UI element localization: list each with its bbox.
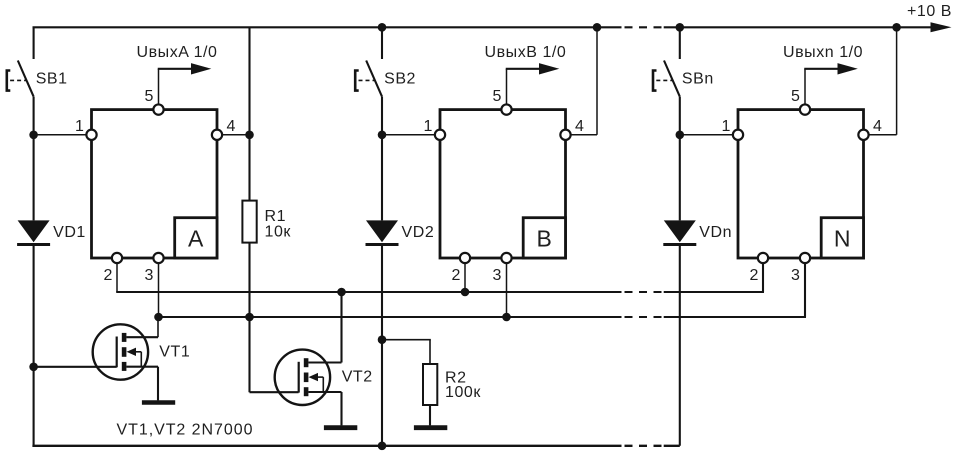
wire pin4	[571, 134, 597, 136]
svg-text:4: 4	[575, 118, 584, 135]
pin 5 of A	[153, 104, 163, 114]
node junction R1 on pin3 bus	[245, 313, 254, 322]
wire VT1 gate to VD1 column	[34, 366, 117, 368]
pin 1 of N	[733, 130, 743, 140]
wire pin4	[223, 134, 250, 136]
pin 2 of B	[460, 253, 470, 263]
svg-text:1: 1	[424, 118, 433, 135]
output arrow UвыхA 1/0	[158, 68, 192, 70]
wire bottom rail dashed continuation	[625, 445, 664, 447]
pin 2 of N	[758, 253, 768, 263]
diode VD1	[18, 220, 50, 242]
svg-text:2: 2	[750, 267, 759, 284]
pin 2 of A	[112, 253, 122, 263]
svg-text:UвыхB 1/0: UвыхB 1/0	[485, 44, 567, 61]
svg-text:R1: R1	[265, 208, 287, 225]
transistor VT2 MOSFET	[275, 350, 330, 405]
svg-text:100к: 100к	[445, 384, 481, 401]
pin 3 of B	[501, 253, 511, 263]
svg-text:3: 3	[493, 267, 502, 284]
svg-text:2: 2	[104, 267, 113, 284]
wire to pin 1	[34, 134, 86, 136]
svg-text:Uвыхn 1/0: Uвыхn 1/0	[783, 44, 863, 61]
pin 4 of A	[212, 130, 222, 140]
svg-text:3: 3	[145, 267, 154, 284]
wire diode cathode down to bottom rail	[381, 246, 383, 446]
transistor VT1 MOSFET	[93, 324, 148, 379]
power +10V arrow terminal	[931, 22, 952, 32]
wire pin4 riser to +10V rail	[896, 27, 898, 135]
node junction pin4 net on rail	[245, 131, 254, 140]
pin 4 of B	[560, 130, 570, 140]
pin 1 of B	[435, 130, 445, 140]
svg-text:SB1: SB1	[36, 70, 68, 87]
pin 4 of N	[858, 130, 868, 140]
ground VT2 source	[324, 425, 357, 430]
node junction VT1 gate tap	[29, 363, 38, 372]
module A body	[92, 110, 218, 258]
wire pin2 stub	[116, 264, 118, 293]
svg-text:A: A	[188, 226, 204, 252]
svg-text:5: 5	[145, 88, 154, 105]
diode VDn	[664, 220, 696, 242]
svg-text:4: 4	[227, 118, 236, 135]
switch SB1 push-button	[33, 27, 35, 59]
wire pin4 riser to +10V rail	[596, 27, 598, 135]
svg-text:SB2: SB2	[384, 70, 416, 87]
node junction B pin2 on bus	[461, 288, 470, 297]
wire switch to diode column	[381, 97, 383, 221]
svg-text:4: 4	[873, 118, 882, 135]
node junction SBn on rail	[676, 23, 685, 32]
node junction B pin3 on bus	[502, 313, 511, 322]
node junction R2 tap on VD2 column	[378, 335, 387, 344]
pin 5 of N	[800, 104, 810, 114]
wire VT1 source to ground	[126, 366, 158, 368]
switch SBn push-button	[679, 27, 681, 59]
module B body	[440, 110, 566, 258]
wire R2 tap	[382, 339, 431, 341]
wire VT1 drain to pin3 bus	[126, 336, 158, 338]
svg-text:B: B	[536, 226, 552, 252]
svg-text:2: 2	[452, 267, 461, 284]
wire pin2 stub	[762, 264, 764, 293]
svg-text:10к: 10к	[265, 224, 292, 241]
wire R1 to pin3 bus	[248, 243, 250, 317]
wire bus pin3 net	[159, 316, 622, 318]
svg-text:1: 1	[722, 118, 731, 135]
wire pin5 riser to output arrow	[506, 69, 508, 104]
svg-text:1: 1	[75, 118, 84, 135]
pin 5 of B	[501, 104, 511, 114]
diode VD2	[366, 220, 398, 242]
wire diode cathode down to bottom rail	[33, 246, 35, 446]
pin 1 of A	[86, 130, 96, 140]
wire VT2 source to ground	[308, 391, 341, 393]
svg-text:UвыхA 1/0: UвыхA 1/0	[137, 44, 218, 61]
wire to pin 1	[680, 134, 733, 136]
wire pin4	[869, 134, 897, 136]
svg-text:VD2: VD2	[402, 224, 435, 241]
svg-text:VT1,VT2 2N7000: VT1,VT2 2N7000	[117, 421, 254, 438]
switch SB2 push-button	[381, 27, 383, 59]
svg-text:5: 5	[493, 88, 502, 105]
node junction A pin3 / VT1 drain	[154, 313, 163, 322]
wire VT2 drain to pin2 bus	[308, 361, 341, 363]
wire switch to diode column	[33, 97, 35, 221]
svg-text:5: 5	[791, 88, 800, 105]
svg-text:VT1: VT1	[159, 343, 190, 360]
output arrow Uвыхn 1/0	[804, 68, 838, 70]
pin 3 of N	[800, 253, 810, 263]
wire pin3 stub	[804, 264, 806, 318]
wire bottom common rail	[32, 445, 621, 447]
node junction VD2 column on bottom rail	[378, 442, 387, 451]
ground R2	[414, 425, 447, 430]
resistor R1	[242, 201, 256, 243]
svg-text:SBn: SBn	[682, 70, 714, 87]
node junction pin1 column A	[29, 131, 38, 140]
wire bus pin2 net	[116, 291, 621, 293]
wire pin3 stub	[506, 264, 508, 318]
svg-text:VT2: VT2	[342, 369, 373, 386]
node junction SB2 on rail	[378, 23, 387, 32]
wire top rail dashed continuation	[625, 26, 664, 28]
module N inner label box	[821, 218, 863, 258]
svg-text:VD1: VD1	[53, 224, 86, 241]
node junction VT2 drain on pin2 bus	[337, 288, 346, 297]
wire to pin 1	[382, 134, 435, 136]
wire pin3 stub	[158, 264, 160, 318]
node junction pin1 column B	[378, 131, 387, 140]
module A inner label box	[175, 218, 217, 258]
wire R2 to ground	[429, 405, 431, 425]
wire diode cathode down to bottom rail	[679, 246, 681, 446]
svg-text:N: N	[834, 226, 851, 252]
wire switch to diode column	[679, 97, 681, 221]
output arrow UвыхB 1/0	[506, 68, 540, 70]
module N body	[738, 110, 864, 258]
node junction pin1 column N	[676, 131, 685, 140]
node junction pin4 net on rail	[593, 23, 602, 32]
wire top rail right segment	[664, 26, 932, 28]
ground VT1 source	[142, 400, 175, 405]
wire R1 column from rail	[248, 27, 250, 200]
svg-text:3: 3	[791, 267, 800, 284]
wire pin3 bus down to VT2 gate	[248, 317, 250, 392]
svg-text:VDn: VDn	[699, 224, 732, 241]
node junction pin4 net on rail	[892, 23, 901, 32]
wire pin5 riser to output arrow	[804, 69, 806, 104]
svg-text:+10 В: +10 В	[907, 3, 952, 20]
pin 3 of A	[153, 253, 163, 263]
wire pin2 stub	[464, 264, 466, 293]
module B inner label box	[523, 218, 565, 258]
wire +10V top rail	[33, 26, 622, 28]
wire pin5 riser to output arrow	[158, 69, 160, 104]
resistor R2	[423, 364, 437, 405]
